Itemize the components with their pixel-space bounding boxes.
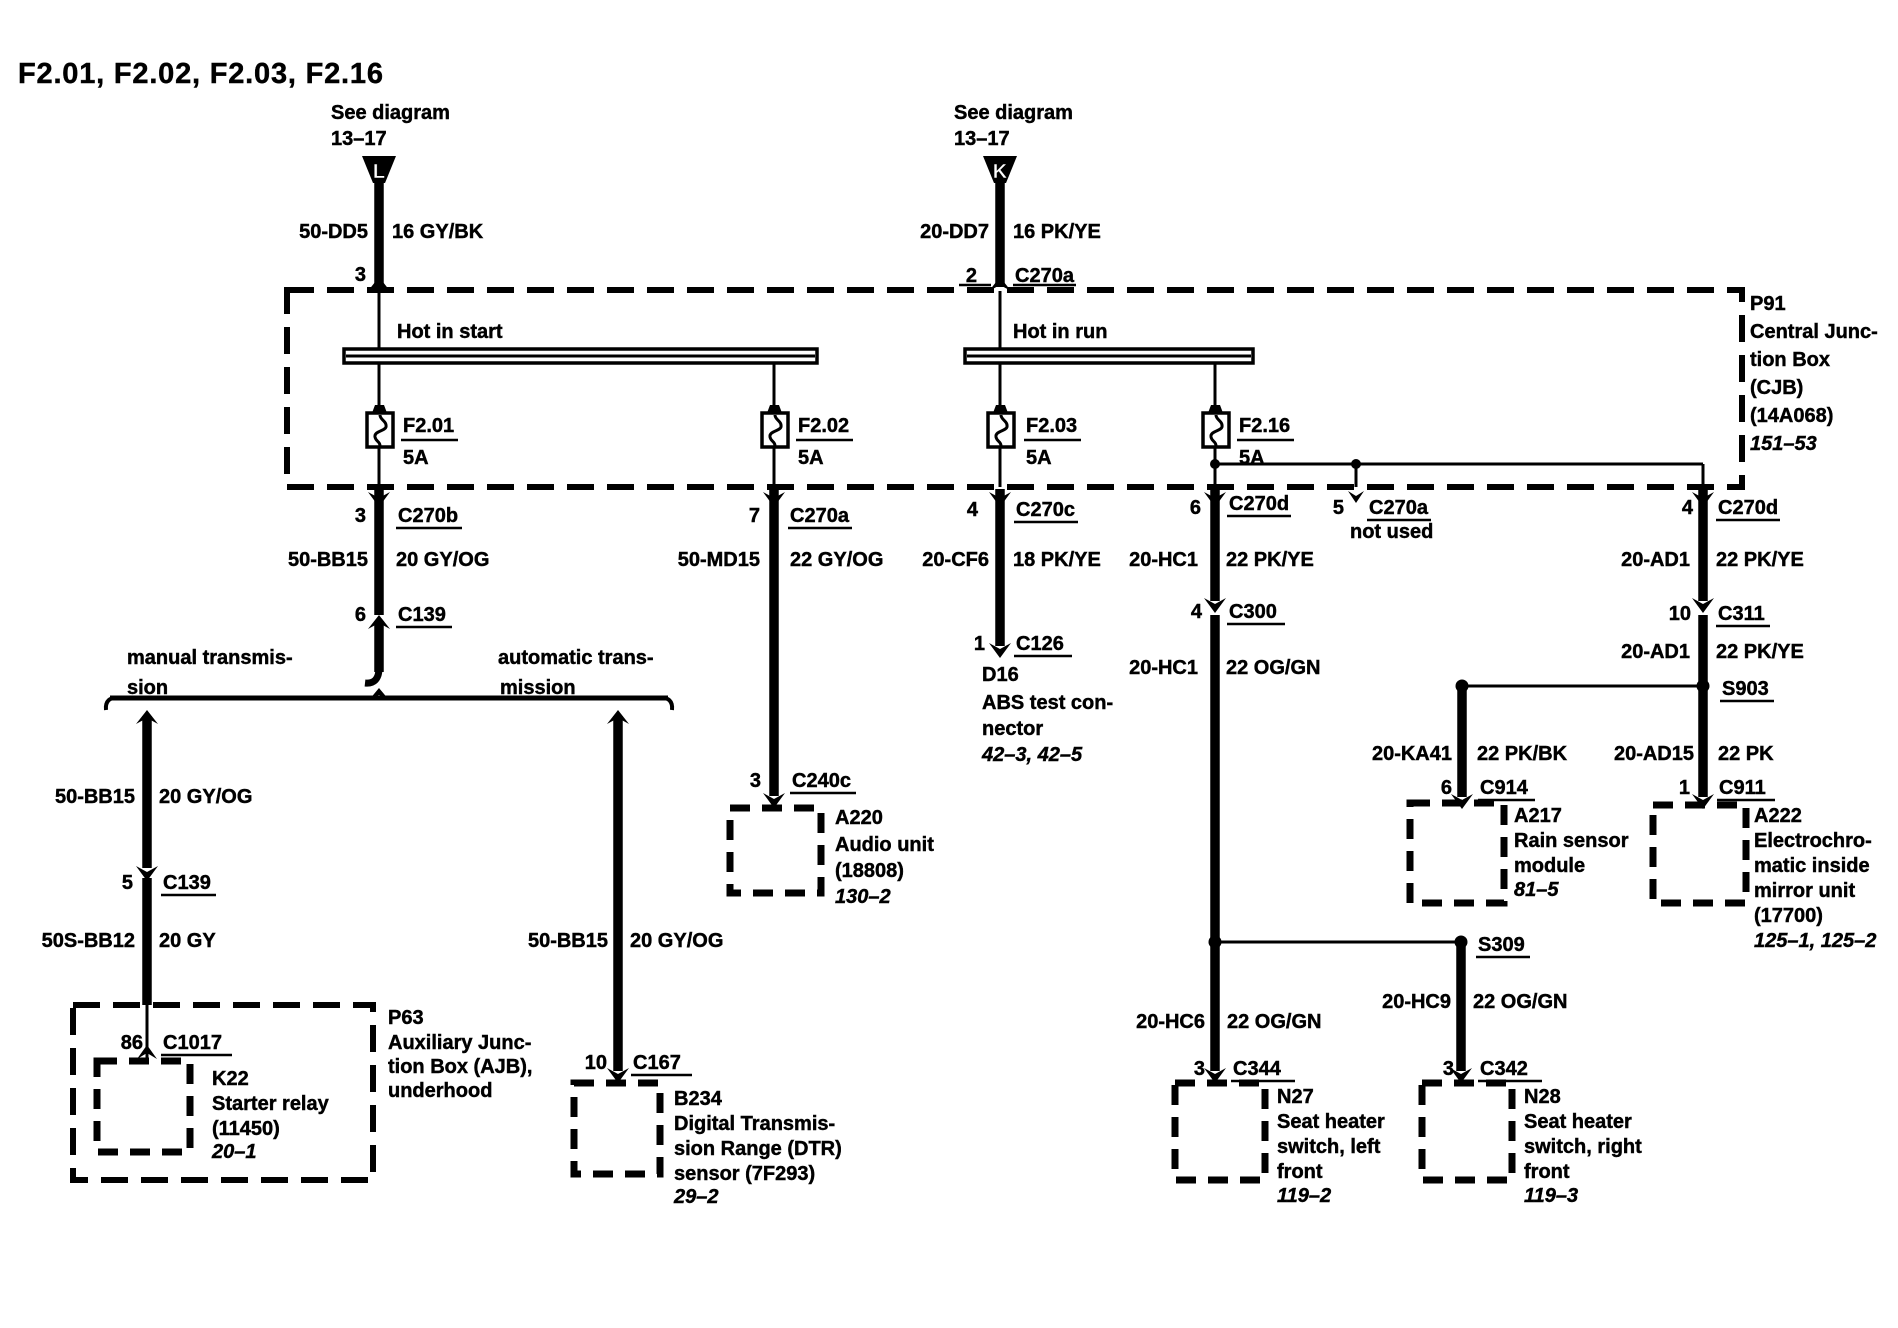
svg-text:5: 5: [122, 872, 133, 894]
svg-text:119–2: 119–2: [1277, 1185, 1331, 1207]
svg-text:matic inside: matic inside: [1754, 855, 1870, 877]
svg-text:module: module: [1514, 855, 1585, 877]
pin 4 C270c at CJB bottom: [967, 492, 1078, 522]
svg-text:sion Range (DTR): sion Range (DTR): [674, 1138, 842, 1160]
svg-text:5A: 5A: [403, 447, 429, 469]
svg-text:Seat heater: Seat heater: [1524, 1111, 1632, 1133]
wire 50S-BB12 20 GY (C139 to starter relay): [42, 878, 217, 1005]
svg-text:Hot in start: Hot in start: [397, 321, 503, 343]
svg-text:3: 3: [1194, 1058, 1205, 1080]
svg-text:Hot in run: Hot in run: [1013, 321, 1107, 343]
audio unit A220 (dashed box): [730, 808, 821, 893]
P91 CJB label block: [1750, 293, 1878, 455]
svg-text:22 PK/YE: 22 PK/YE: [1226, 549, 1314, 571]
svg-text:Rain sensor: Rain sensor: [1514, 830, 1629, 852]
svg-text:20-AD1: 20-AD1: [1621, 641, 1690, 663]
svg-text:22 GY/OG: 22 GY/OG: [790, 549, 883, 571]
svg-text:125–1, 125–2: 125–1, 125–2: [1754, 930, 1876, 952]
pin 6 C270d at CJB bottom: [1190, 492, 1291, 519]
svg-text:10: 10: [1669, 603, 1691, 625]
svg-text:sensor (7F293): sensor (7F293): [674, 1163, 815, 1185]
pin 3 connector C344: [1194, 1058, 1295, 1081]
splice S309: [1209, 934, 1531, 957]
fuse F2.03 5A: [988, 405, 1081, 469]
svg-text:5A: 5A: [798, 447, 824, 469]
svg-text:3: 3: [355, 505, 366, 527]
svg-text:50-DD5: 50-DD5: [299, 221, 368, 243]
pin 1 connector C911: [1679, 777, 1775, 800]
svg-text:A222: A222: [1754, 805, 1802, 827]
svg-text:81–5: 81–5: [1514, 879, 1559, 901]
svg-text:2: 2: [966, 265, 977, 287]
svg-text:See diagram: See diagram: [331, 102, 450, 124]
svg-text:Seat heater: Seat heater: [1277, 1111, 1385, 1133]
svg-text:F2.16: F2.16: [1239, 415, 1290, 437]
A217 label block: [1514, 805, 1629, 901]
svg-text:3: 3: [1443, 1058, 1454, 1080]
pin 3 C270b at CJB bottom: [355, 492, 462, 528]
svg-text:C270d: C270d: [1718, 497, 1778, 519]
svg-text:16 GY/BK: 16 GY/BK: [392, 221, 484, 243]
svg-text:automatic trans-: automatic trans-: [498, 647, 654, 669]
svg-text:20-AD15: 20-AD15: [1614, 743, 1694, 765]
svg-text:F2.02: F2.02: [798, 415, 849, 437]
svg-text:29–2: 29–2: [673, 1186, 719, 1208]
svg-text:18 PK/YE: 18 PK/YE: [1013, 549, 1101, 571]
svg-text:C240c: C240c: [792, 770, 851, 792]
K22 starter relay label block: [211, 1068, 330, 1163]
svg-text:C911: C911: [1719, 777, 1766, 799]
svg-text:20-KA41: 20-KA41: [1372, 743, 1452, 765]
DTR sensor B234 (dashed box): [574, 1083, 660, 1174]
svg-text:20-DD7: 20-DD7: [920, 221, 989, 243]
wire fuse F2.01 to pin 3 exit: [378, 447, 381, 487]
P63 AJB label block: [388, 1007, 532, 1102]
svg-text:20-HC1: 20-HC1: [1129, 657, 1198, 679]
wire CJB entry L to bus: [378, 291, 381, 349]
svg-text:22 PK/YE: 22 PK/YE: [1716, 549, 1804, 571]
pin 4 C270d (right) at CJB bottom: [1682, 492, 1780, 520]
svg-text:K22: K22: [212, 1068, 249, 1090]
svg-text:10: 10: [585, 1052, 607, 1074]
pin 10 connector C311: [1669, 603, 1770, 626]
svg-text:nector: nector: [982, 718, 1043, 740]
svg-text:22 PK/YE: 22 PK/YE: [1716, 641, 1804, 663]
wire manual branch 50-BB15 20 GY/OG: [55, 710, 252, 868]
svg-text:6: 6: [355, 604, 366, 626]
wire 20-AD1 22 PK/YE (C311 to S903): [1621, 615, 1804, 797]
wire 50-MD15 22 GY/OG (pin7 to audio unit): [678, 489, 884, 808]
svg-text:P91: P91: [1750, 293, 1786, 315]
pin 7 C270a at CJB bottom: [749, 492, 852, 528]
N28 label block: [1524, 1086, 1642, 1207]
svg-text:22 PK: 22 PK: [1718, 743, 1774, 765]
svg-text:C270a: C270a: [790, 505, 850, 527]
svg-text:Electrochro-: Electrochro-: [1754, 830, 1872, 852]
svg-text:mission: mission: [500, 677, 576, 699]
wire fuse F2.02 to pin 7 exit: [773, 447, 776, 487]
svg-text:22 PK/BK: 22 PK/BK: [1477, 743, 1568, 765]
svg-text:13–17: 13–17: [331, 128, 387, 150]
pin 4 connector C300: [1191, 601, 1285, 624]
svg-text:Audio unit: Audio unit: [835, 834, 934, 856]
svg-text:F2.03: F2.03: [1026, 415, 1077, 437]
seat heater switch N27 (dashed box): [1175, 1083, 1265, 1180]
fuse F2.02 5A: [762, 405, 853, 469]
svg-text:20-HC6: 20-HC6: [1136, 1011, 1205, 1033]
pin 1 connector C126: [974, 633, 1072, 656]
svg-text:Starter relay: Starter relay: [212, 1093, 330, 1115]
fuse F2.16 5A: [1203, 405, 1294, 469]
svg-text:20-HC9: 20-HC9: [1382, 991, 1451, 1013]
svg-text:A217: A217: [1514, 805, 1562, 827]
wire bus to fuse F2.03: [999, 363, 1002, 408]
wire 20-HC6 22 OG/GN (S309 to N27): [1136, 1011, 1321, 1083]
N27 label block: [1277, 1086, 1385, 1207]
connector C139 pin 5: [122, 866, 216, 895]
svg-text:(18808): (18808): [835, 860, 904, 882]
svg-text:front: front: [1524, 1161, 1570, 1183]
svg-text:3: 3: [750, 770, 761, 792]
fuse F2.01 5A: [367, 405, 458, 469]
wire 50-BB15 20 GY/OG (pin3 to C139): [288, 489, 489, 615]
svg-text:F2.01, F2.02, F2.03, F2.16: F2.01, F2.02, F2.03, F2.16: [18, 58, 384, 90]
svg-text:151–53: 151–53: [1750, 433, 1817, 455]
svg-text:C1017: C1017: [163, 1032, 222, 1054]
svg-text:front: front: [1277, 1161, 1323, 1183]
wire bus to fuse F2.01: [378, 363, 381, 408]
svg-text:4: 4: [1191, 601, 1203, 623]
svg-text:not used: not used: [1350, 521, 1433, 543]
svg-text:C126: C126: [1016, 633, 1064, 655]
svg-text:22 OG/GN: 22 OG/GN: [1227, 1011, 1321, 1033]
svg-text:S309: S309: [1478, 934, 1525, 956]
wire bus to fuse F2.02: [773, 363, 776, 408]
svg-text:5A: 5A: [1026, 447, 1052, 469]
node: Hot in run bus: [965, 321, 1253, 363]
svg-text:20 GY/OG: 20 GY/OG: [630, 930, 723, 952]
wire F2.16 feed to pins 5 and 4 (inside CJB): [1210, 459, 1703, 487]
off-page connector K: see diagram 13-17: [954, 102, 1073, 183]
svg-text:Digital Transmis-: Digital Transmis-: [674, 1113, 835, 1135]
rain sensor module A217 (dashed box): [1410, 803, 1504, 903]
svg-text:(17700): (17700): [1754, 905, 1823, 927]
pin 86 connector C1017: [121, 1032, 232, 1059]
svg-text:manual transmis-: manual transmis-: [127, 647, 293, 669]
pin 6 connector C914: [1441, 777, 1535, 800]
wire 20-AD1 22 PK/YE (pin4 right to C311): [1621, 489, 1804, 613]
svg-text:1: 1: [974, 633, 985, 655]
svg-text:(14A068): (14A068): [1750, 405, 1833, 427]
svg-text:C300: C300: [1229, 601, 1277, 623]
svg-text:6: 6: [1190, 497, 1201, 519]
svg-text:13–17: 13–17: [954, 128, 1010, 150]
svg-text:C342: C342: [1480, 1058, 1528, 1080]
B234 DTR label block: [673, 1088, 842, 1208]
svg-text:50-BB15: 50-BB15: [288, 549, 368, 571]
wire 20-AD15 22 PK (S903 to mirror): [1614, 743, 1774, 809]
svg-text:C270d: C270d: [1229, 493, 1289, 515]
A220 audio unit label block: [835, 807, 934, 908]
svg-text:22 OG/GN: 22 OG/GN: [1473, 991, 1567, 1013]
wire automatic branch 50-BB15 20 GY/OG: [528, 710, 723, 1083]
svg-text:tion Box (AJB),: tion Box (AJB),: [388, 1056, 532, 1078]
svg-text:C270a: C270a: [1015, 265, 1075, 287]
svg-text:C344: C344: [1233, 1058, 1282, 1080]
svg-text:20-HC1: 20-HC1: [1129, 549, 1198, 571]
svg-text:1: 1: [1679, 777, 1690, 799]
connector C139 pin 6: [355, 604, 452, 629]
svg-text:N28: N28: [1524, 1086, 1561, 1108]
svg-text:C167: C167: [633, 1052, 681, 1074]
starter relay K22 (dashed box): [97, 1061, 190, 1152]
svg-text:20–1: 20–1: [211, 1141, 257, 1163]
svg-text:B234: B234: [674, 1088, 723, 1110]
svg-text:4: 4: [967, 499, 979, 521]
splice S903: [1456, 678, 1775, 701]
svg-text:20-AD1: 20-AD1: [1621, 549, 1690, 571]
electrochromatic mirror A222 (dashed box): [1653, 805, 1746, 903]
svg-text:C270c: C270c: [1016, 499, 1075, 521]
svg-text:F2.01: F2.01: [403, 415, 454, 437]
svg-text:Auxiliary Junc-: Auxiliary Junc-: [388, 1032, 531, 1054]
wire 20-HC1 22 OG/GN (C300 to seat heater circuit): [1129, 615, 1320, 1071]
svg-text:86: 86: [121, 1032, 143, 1054]
svg-text:5A: 5A: [1239, 447, 1265, 469]
wire 50-DD5 16 GY/BK (L to CJB pin 3): [299, 178, 484, 291]
svg-text:P63: P63: [388, 1007, 424, 1029]
svg-text:ABS test con-: ABS test con-: [982, 692, 1113, 714]
wire CJB entry K to bus: [999, 291, 1002, 349]
A222 label block: [1754, 805, 1876, 952]
svg-text:switch, right: switch, right: [1524, 1136, 1642, 1158]
svg-text:6: 6: [1441, 777, 1452, 799]
svg-text:(11450): (11450): [212, 1118, 280, 1140]
auxiliary junction box P63 (dashed): [73, 1005, 373, 1180]
wire C139 to transmission split: [365, 621, 379, 683]
svg-text:A220: A220: [835, 807, 883, 829]
svg-text:N27: N27: [1277, 1086, 1314, 1108]
svg-text:switch, left: switch, left: [1277, 1136, 1381, 1158]
svg-text:50S-BB12: 50S-BB12: [42, 930, 135, 952]
svg-text:20 GY/OG: 20 GY/OG: [159, 786, 252, 808]
node: Hot in start bus: [344, 321, 817, 363]
svg-text:See diagram: See diagram: [954, 102, 1073, 124]
off-page connector L: see diagram 13-17: [331, 102, 450, 183]
wire 20-HC1 22 PK/YE (pin6 to C300): [1129, 489, 1314, 613]
svg-text:130–2: 130–2: [835, 886, 891, 908]
pin 3 connector C240c: [750, 770, 856, 793]
svg-text:4: 4: [1682, 497, 1694, 519]
svg-text:mirror unit: mirror unit: [1754, 880, 1855, 902]
svg-text:S903: S903: [1722, 678, 1769, 700]
svg-text:119–3: 119–3: [1524, 1185, 1578, 1207]
svg-text:C270a: C270a: [1369, 497, 1429, 519]
svg-text:50-BB15: 50-BB15: [55, 786, 135, 808]
pin 2 / connector C270a at CJB top: [959, 265, 1076, 287]
svg-text:22 OG/GN: 22 OG/GN: [1226, 657, 1320, 679]
svg-text:tion Box: tion Box: [1750, 349, 1830, 371]
wire fuse F2.16 to pin 6 exit: [1214, 447, 1217, 487]
svg-text:20 GY/OG: 20 GY/OG: [396, 549, 489, 571]
svg-text:D16: D16: [982, 664, 1019, 686]
pin 5 C270a not used at CJB bottom: [1333, 491, 1433, 543]
svg-text:20-CF6: 20-CF6: [922, 549, 989, 571]
seat heater switch N28 (dashed box): [1422, 1083, 1512, 1180]
svg-text:3: 3: [355, 264, 366, 286]
node: transmission option split: [106, 647, 672, 710]
svg-text:42–3, 42–5: 42–3, 42–5: [981, 744, 1083, 766]
svg-text:C270b: C270b: [398, 505, 458, 527]
wire 20-DD7 16 PK/YE (K to CJB pin 2): [920, 178, 1101, 291]
svg-text:sion: sion: [127, 677, 168, 699]
wire bus to fuse F2.16: [1214, 363, 1217, 408]
svg-text:50-BB15: 50-BB15: [528, 930, 608, 952]
svg-text:50-MD15: 50-MD15: [678, 549, 760, 571]
wire 20-CF6 18 PK/YE (pin4 to ABS test connector): [922, 489, 1101, 658]
wire 20-HC9 22 OG/GN (S309 to N28): [1382, 942, 1567, 1083]
svg-text:C914: C914: [1480, 777, 1529, 799]
svg-text:16 PK/YE: 16 PK/YE: [1013, 221, 1101, 243]
wire fuse F2.03 to pin 4 exit: [999, 447, 1002, 487]
D16 ABS test connector label block: [981, 664, 1113, 766]
svg-text:C139: C139: [163, 872, 211, 894]
wire 20-KA41 22 PK/BK (S903 to rain sensor): [1372, 686, 1568, 809]
pin 10 connector C167: [585, 1052, 692, 1075]
svg-text:7: 7: [749, 505, 760, 527]
wire inside P63 to relay: [146, 1005, 149, 1061]
pin 3 connector C342: [1443, 1058, 1542, 1081]
svg-text:5: 5: [1333, 497, 1344, 519]
svg-text:(CJB): (CJB): [1750, 377, 1803, 399]
svg-text:Central Junc-: Central Junc-: [1750, 321, 1878, 343]
central junction box P91 (dashed): [287, 290, 1742, 487]
svg-text:underhood: underhood: [388, 1080, 492, 1102]
svg-text:C311: C311: [1718, 603, 1765, 625]
svg-text:20 GY: 20 GY: [159, 930, 216, 952]
svg-text:C139: C139: [398, 604, 446, 626]
